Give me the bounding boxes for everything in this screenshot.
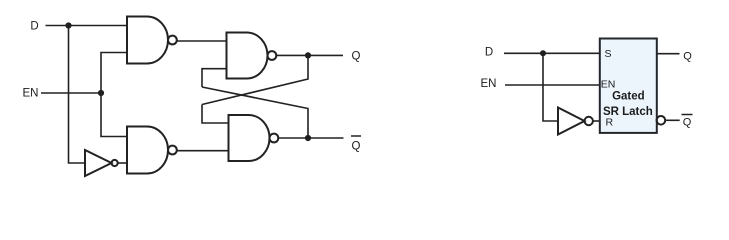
svg-text:EN: EN [481,78,497,90]
wire D input (right) [504,52,600,54]
svg-text:EN: EN [601,79,616,91]
inverter U5 bubble [112,160,118,166]
nand gate U4 body [229,115,270,161]
bubble Qbar output on box [657,116,666,125]
svg-text:EN: EN [23,88,39,100]
nand gate U1 body [127,17,168,64]
wire Q output (right) [657,53,680,55]
inverter U6 bubble [585,117,593,125]
svg-text:D: D [485,47,493,59]
svg-text:S: S [605,48,612,60]
wire U2 output to U4 [177,150,229,152]
wire Q output [276,54,343,56]
wire D vertical drop to inverter [69,26,86,164]
overline of Qbar (right) [682,114,693,116]
wire inverter to R input [593,120,600,122]
wire feedback Q to U4 (diagonal) [202,55,308,104]
node Qbar junction [305,135,311,141]
inverter U6 triangle [558,108,585,135]
wire Qbar output [278,137,343,139]
nand gate U2 body [127,127,168,174]
wire EN up branch to NAND1 [101,53,127,94]
wire EN input (right) [505,84,600,86]
svg-text:SR Latch: SR Latch [603,106,653,118]
node D junction [65,22,71,28]
svg-text:Gated: Gated [612,90,645,102]
wire D input [46,25,128,27]
overline of Qbar (left) [351,135,361,137]
node Q junction [305,52,311,58]
wire EN down branch to NAND2 [101,93,127,137]
nand gate U3 bubble [268,51,277,60]
svg-text:D: D [30,21,38,33]
svg-text:Q: Q [352,141,361,153]
svg-text:Q: Q [683,117,692,129]
svg-text:R: R [606,116,614,128]
inverter U5 triangle [85,150,112,176]
wire U4 top input stub [202,105,229,124]
nand gate U3 body [227,33,268,79]
wire Qbar output (right) [665,119,680,121]
wire U1 output to U3 [177,40,227,42]
wire U3 bottom input stub [202,69,227,87]
node D junction (right) [540,50,546,56]
nand gate U1 bubble [168,36,177,45]
svg-text:Q: Q [352,51,361,63]
node EN junction [98,90,104,96]
wire feedback Qbar to U3 (diagonal) [202,87,308,138]
svg-text:Q: Q [683,50,692,62]
block U7 gated SR latch box [600,39,657,133]
wire D drop to inverter (right) [543,53,558,121]
nand gate U4 bubble [270,134,279,143]
nand gate U2 bubble [168,146,177,155]
wire EN input [41,92,101,94]
wire inverter output to NAND2 [118,162,127,164]
